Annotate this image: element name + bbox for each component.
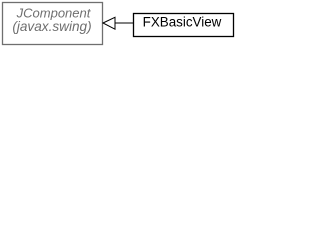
svg-text:(javax.swing): (javax.swing) xyxy=(12,19,91,34)
svg-text:FXBasicView: FXBasicView xyxy=(143,15,222,30)
